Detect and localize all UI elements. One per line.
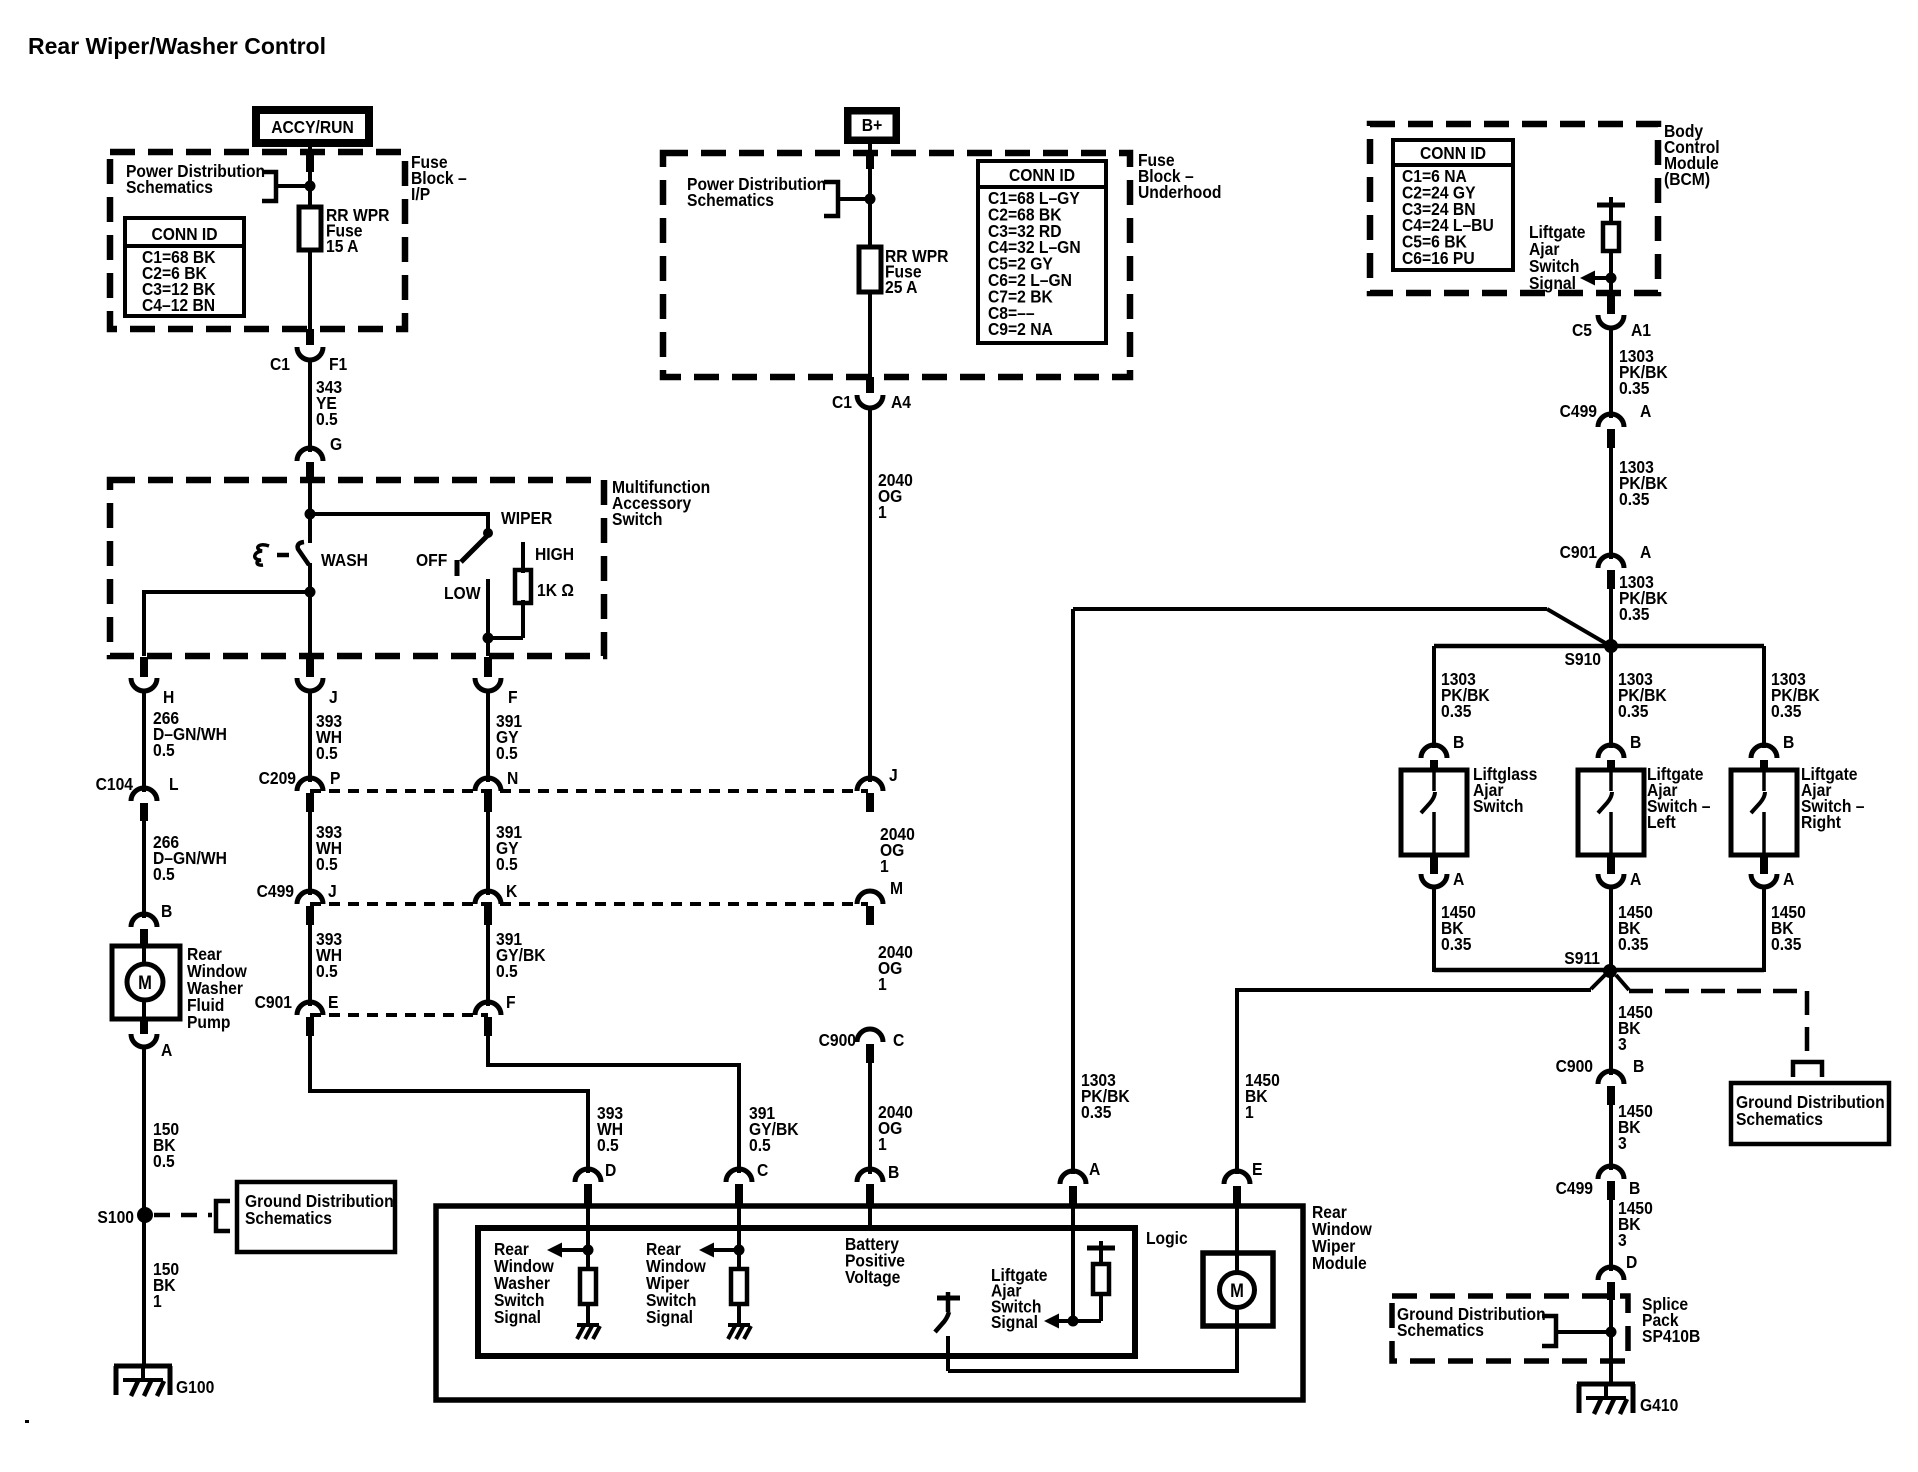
svg-text:B: B bbox=[1783, 732, 1794, 752]
svg-text:0.5: 0.5 bbox=[749, 1135, 771, 1155]
svg-text:0.35: 0.35 bbox=[1441, 934, 1471, 954]
multifunction accessory switch dashed box bbox=[110, 480, 604, 656]
connector H bbox=[131, 657, 174, 707]
svg-text:Module: Module bbox=[1312, 1253, 1367, 1273]
svg-text:0.5: 0.5 bbox=[316, 743, 338, 763]
svg-text:G100: G100 bbox=[176, 1377, 214, 1397]
svg-text:3: 3 bbox=[1618, 1230, 1627, 1250]
switch blade WASH bbox=[298, 542, 309, 565]
svg-text:LOW: LOW bbox=[444, 583, 481, 603]
connector C900/B (right) bbox=[1556, 1056, 1645, 1105]
svg-text:A: A bbox=[1089, 1159, 1100, 1179]
svg-text:C1: C1 bbox=[270, 354, 290, 374]
connector module pin B bbox=[857, 1169, 883, 1207]
svg-text:Rear Wiper/Washer Control: Rear Wiper/Washer Control bbox=[28, 33, 326, 59]
svg-text:C499: C499 bbox=[1560, 401, 1597, 421]
svg-text:0.5: 0.5 bbox=[496, 961, 518, 981]
wire LOW contact bbox=[486, 579, 490, 640]
svg-text:0.35: 0.35 bbox=[1619, 489, 1649, 509]
wire E jog to module pin D bbox=[310, 1033, 588, 1173]
connector module pin C bbox=[726, 1169, 752, 1207]
svg-text:C499: C499 bbox=[1556, 1178, 1593, 1198]
internal pull-up (BCM liftgate ajar input) bbox=[1597, 197, 1625, 293]
wire 150 BK 1 bbox=[142, 1215, 146, 1367]
svg-text:B+: B+ bbox=[862, 115, 883, 135]
connector A (liftgate left) bbox=[1598, 855, 1641, 889]
svg-text:0.35: 0.35 bbox=[1618, 701, 1648, 721]
fuse RR WPR 15 A bbox=[299, 207, 321, 250]
connector C901/E bbox=[255, 992, 339, 1036]
connector J (switch output) bbox=[297, 657, 338, 707]
svg-text:A: A bbox=[1783, 869, 1794, 889]
wire module A input (ajar signal) bbox=[1071, 1206, 1075, 1321]
wire 1303 PK/BK 0.35 (seg1) bbox=[1609, 327, 1613, 418]
node junction on B+ feed bbox=[865, 194, 876, 205]
svg-text:B: B bbox=[1629, 1178, 1640, 1198]
svg-text:1: 1 bbox=[153, 1291, 162, 1311]
svg-text:A1: A1 bbox=[1631, 320, 1651, 340]
svg-text:K: K bbox=[506, 881, 518, 901]
connector C5/A1 bbox=[1572, 293, 1651, 340]
wire module C input bbox=[737, 1206, 741, 1269]
svg-text:WIPER: WIPER bbox=[501, 508, 552, 528]
ground (washer input) bbox=[577, 1323, 599, 1327]
svg-text:Right: Right bbox=[1801, 812, 1841, 832]
svg-text:Switch: Switch bbox=[612, 509, 662, 529]
svg-text:L: L bbox=[169, 774, 179, 794]
svg-text:D: D bbox=[605, 1160, 616, 1180]
splice S911 bbox=[1603, 964, 1617, 978]
bracket to ground distribution (splice) bbox=[1542, 1316, 1556, 1346]
connector A (pump) bbox=[131, 1019, 172, 1060]
wire 393 WH 0.5 (seg2) bbox=[308, 808, 312, 895]
svg-text:J: J bbox=[328, 881, 337, 901]
connector F (switch output) bbox=[475, 657, 518, 707]
connector C499/M (B+) bbox=[857, 878, 903, 925]
wire feed inside switch bbox=[308, 480, 312, 543]
svg-text:0.5: 0.5 bbox=[496, 854, 518, 874]
connector C901/A (right) bbox=[1560, 542, 1652, 589]
svg-text:1: 1 bbox=[880, 856, 889, 876]
svg-text:1K Ω: 1K Ω bbox=[537, 580, 574, 600]
svg-text:0.35: 0.35 bbox=[1618, 934, 1648, 954]
arrow liftgate ajar switch signal (module) bbox=[1058, 1319, 1073, 1323]
connector C900/C (B+) bbox=[819, 1029, 905, 1063]
arrow rear window wiper switch signal bbox=[712, 1248, 739, 1252]
dashed wire S911 to ground distribution bbox=[1616, 975, 1629, 990]
connector C499/J bbox=[257, 881, 337, 925]
connector D (splice pack) bbox=[1598, 1267, 1624, 1300]
svg-text:Signal: Signal bbox=[991, 1312, 1038, 1332]
svg-text:CONN ID: CONN ID bbox=[151, 224, 217, 244]
node wash output junction bbox=[305, 587, 316, 598]
spring symbol (wash momentary) bbox=[255, 545, 269, 565]
wire HIGH contact bbox=[521, 542, 525, 573]
wire to washer pump branch bbox=[144, 592, 310, 656]
svg-text:25 A: 25 A bbox=[885, 277, 917, 297]
wire branch liftglass bbox=[1432, 646, 1436, 748]
wire 1450 BK 3 (seg3) bbox=[1609, 1196, 1613, 1271]
svg-text:J: J bbox=[889, 765, 898, 785]
dashed link spring to blade bbox=[277, 553, 289, 558]
arrow liftgate ajar switch signal (BCM) bbox=[1594, 276, 1611, 280]
svg-text:Switch: Switch bbox=[1473, 796, 1523, 816]
svg-text:C104: C104 bbox=[96, 774, 134, 794]
svg-text:Left: Left bbox=[1647, 812, 1676, 832]
wire junction to resistor bbox=[488, 636, 523, 640]
connector B (liftglass) bbox=[1421, 732, 1464, 771]
svg-text:0.5: 0.5 bbox=[153, 864, 175, 884]
wire branch liftgate left bbox=[1609, 646, 1613, 748]
wire module B input (battery) bbox=[868, 1206, 872, 1230]
connector C499/B (right) bbox=[1556, 1166, 1641, 1200]
svg-text:0.5: 0.5 bbox=[316, 961, 338, 981]
svg-text:B: B bbox=[1633, 1056, 1644, 1076]
node splice junction bbox=[1606, 1327, 1617, 1338]
svg-text:WASH: WASH bbox=[321, 550, 368, 570]
connector C499/K bbox=[475, 881, 518, 925]
svg-text:0.5: 0.5 bbox=[496, 743, 518, 763]
bracket to ground distribution (S100) bbox=[216, 1201, 230, 1231]
wire 1450 BK 0.35 (liftgate right) bbox=[1762, 886, 1766, 972]
wire wash lower contact bbox=[308, 563, 312, 656]
connector C209/J (B+) bbox=[857, 765, 898, 812]
wire ACCY/RUN to fuse bbox=[308, 145, 312, 209]
svg-text:C900: C900 bbox=[1556, 1056, 1593, 1076]
connector A (liftgate right) bbox=[1751, 855, 1794, 889]
svg-text:C209: C209 bbox=[259, 768, 296, 788]
resistor 1K (high speed) bbox=[515, 570, 531, 603]
svg-text:C: C bbox=[893, 1030, 904, 1050]
connector C499/A (right) bbox=[1560, 401, 1652, 448]
svg-text:Logic: Logic bbox=[1146, 1228, 1188, 1248]
svg-text:Voltage: Voltage bbox=[845, 1267, 900, 1287]
ground G410 bbox=[1577, 1384, 1678, 1415]
node low/high junction bbox=[483, 633, 494, 644]
svg-text:0.5: 0.5 bbox=[316, 409, 338, 429]
svg-text:S911: S911 bbox=[1564, 948, 1600, 968]
wire bracket stem (splice) bbox=[1556, 1330, 1606, 1334]
svg-text:ACCY/RUN: ACCY/RUN bbox=[271, 117, 354, 137]
svg-text:0.35: 0.35 bbox=[1619, 604, 1649, 624]
arrow rear window washer switch signal bbox=[560, 1248, 588, 1252]
wire 343 YE 0.5 bbox=[308, 359, 312, 452]
node liftgate ajar signal junction (module) bbox=[1068, 1316, 1079, 1327]
svg-text:C4–12 BN: C4–12 BN bbox=[142, 295, 215, 315]
body control module dashed box bbox=[1370, 124, 1658, 293]
svg-text:A: A bbox=[1640, 401, 1651, 421]
svg-text:A: A bbox=[1640, 542, 1651, 562]
ground (wiper input) bbox=[728, 1323, 750, 1327]
connector C1/A4 bbox=[832, 377, 912, 412]
bracket to power distribution (I/P) bbox=[262, 172, 276, 201]
svg-text:0.5: 0.5 bbox=[597, 1135, 619, 1155]
wire 391 GY 0.5 (seg2) bbox=[486, 808, 490, 895]
wire low branch to box edge bbox=[486, 638, 490, 656]
power feed box ACCY/RUN bbox=[252, 106, 373, 147]
svg-text:OFF: OFF bbox=[416, 550, 447, 570]
svg-text:0.35: 0.35 bbox=[1619, 378, 1649, 398]
svg-text:(BCM): (BCM) bbox=[1664, 169, 1710, 189]
wire 266 D-GN/WH 0.5 (lower) bbox=[142, 818, 146, 918]
connector module pin A bbox=[1060, 1171, 1086, 1207]
connector B (pump) bbox=[131, 901, 172, 948]
svg-text:C901: C901 bbox=[1560, 542, 1597, 562]
switch liftgate right ajar bbox=[1731, 770, 1797, 855]
wire branch liftgate right bbox=[1762, 646, 1766, 748]
switch liftglass ajar bbox=[1401, 770, 1467, 855]
svg-text:SP410B: SP410B bbox=[1642, 1326, 1700, 1346]
connector table CONN ID (BCM) bbox=[1393, 140, 1513, 270]
svg-text:Signal: Signal bbox=[646, 1307, 693, 1327]
svg-text:Schematics: Schematics bbox=[1397, 1320, 1484, 1340]
svg-text:C1: C1 bbox=[832, 392, 852, 412]
wire 1450 BK 3 (seg2) bbox=[1609, 1101, 1613, 1170]
svg-text:B: B bbox=[888, 1162, 899, 1182]
svg-text:G: G bbox=[330, 434, 342, 454]
svg-text:N: N bbox=[507, 768, 518, 788]
svg-text:0.5: 0.5 bbox=[153, 740, 175, 760]
svg-text:0.35: 0.35 bbox=[1771, 701, 1801, 721]
svg-text:S910: S910 bbox=[1564, 649, 1601, 669]
svg-text:F: F bbox=[506, 992, 516, 1012]
svg-text:B: B bbox=[161, 901, 172, 921]
connector C209/P bbox=[259, 768, 341, 812]
logic box bbox=[478, 1228, 1135, 1356]
svg-text:CONN ID: CONN ID bbox=[1420, 143, 1486, 163]
svg-text:B: B bbox=[1630, 732, 1641, 752]
wire module A up bbox=[1071, 609, 1075, 1174]
svg-text:0.5: 0.5 bbox=[316, 854, 338, 874]
svg-text:E: E bbox=[1252, 1159, 1262, 1179]
connector G into multifunction switch bbox=[297, 434, 342, 481]
splice S910 bbox=[1604, 639, 1618, 653]
svg-text:1: 1 bbox=[878, 1134, 887, 1154]
wire ajar switch bus (bottom) bbox=[1434, 968, 1764, 973]
wire S911 to module E (motor return) bbox=[1591, 975, 1605, 989]
node BCM signal junction bbox=[1606, 273, 1617, 284]
resistor wiper input pull-down bbox=[731, 1269, 747, 1304]
internal switch (wiper park) bbox=[935, 1292, 960, 1371]
svg-text:F: F bbox=[508, 687, 518, 707]
connector table CONN ID (underhood) bbox=[978, 161, 1106, 343]
bracket to power distribution (underhood) bbox=[824, 182, 838, 216]
svg-text:I/P: I/P bbox=[411, 184, 430, 204]
wire 1303 PK/BK 0.35 (seg3) bbox=[1609, 585, 1613, 646]
svg-text:1: 1 bbox=[878, 502, 887, 522]
svg-text:M: M bbox=[138, 972, 152, 993]
svg-text:G410: G410 bbox=[1640, 1395, 1678, 1415]
speck (scan artifact) bbox=[25, 1420, 29, 1423]
connector A (liftglass) bbox=[1421, 855, 1464, 889]
wire bracket stem (underhood) bbox=[838, 197, 866, 201]
svg-text:C6=16 PU: C6=16 PU bbox=[1402, 248, 1475, 268]
wire to wiper pivot bbox=[310, 514, 488, 532]
wire splice to ground bbox=[1609, 1297, 1613, 1386]
svg-text:A: A bbox=[1630, 869, 1641, 889]
svg-text:Underhood: Underhood bbox=[1138, 182, 1221, 202]
motor: rear wiper motor bbox=[1203, 1206, 1273, 1326]
connector C209/N bbox=[475, 768, 518, 812]
ground G100 bbox=[114, 1366, 214, 1397]
svg-text:B: B bbox=[1453, 732, 1464, 752]
svg-text:J: J bbox=[329, 687, 338, 707]
power feed box B+ bbox=[844, 107, 900, 144]
wire fuse to block edge bbox=[868, 292, 872, 377]
svg-text:Signal: Signal bbox=[494, 1307, 541, 1327]
svg-text:15 A: 15 A bbox=[326, 236, 358, 256]
svg-text:Schematics: Schematics bbox=[126, 177, 213, 197]
svg-text:0.5: 0.5 bbox=[153, 1151, 175, 1171]
svg-text:F1: F1 bbox=[329, 354, 347, 374]
wire 1450 BK 0.35 (liftgate left) bbox=[1609, 886, 1613, 972]
svg-text:0.35: 0.35 bbox=[1771, 934, 1801, 954]
wire park switch to motor bbox=[948, 1326, 1237, 1371]
svg-text:H: H bbox=[163, 687, 174, 707]
connector module pin E bbox=[1224, 1171, 1250, 1207]
svg-text:C5: C5 bbox=[1572, 320, 1592, 340]
svg-text:C499: C499 bbox=[257, 881, 294, 901]
wire 150 BK 0.5 bbox=[142, 1046, 146, 1215]
svg-text:A: A bbox=[161, 1040, 172, 1060]
switch liftgate left ajar bbox=[1578, 770, 1644, 855]
wire module D input bbox=[586, 1206, 590, 1269]
svg-text:E: E bbox=[328, 992, 338, 1012]
motor: rear window washer fluid pump bbox=[112, 946, 180, 1019]
wire F jog to module pin C bbox=[488, 1033, 739, 1173]
svg-text:Schematics: Schematics bbox=[245, 1208, 332, 1228]
bracket to ground distribution (right) bbox=[1793, 1062, 1822, 1077]
note box Ground Distribution Schematics (S100) bbox=[237, 1182, 395, 1252]
svg-text:C9=2 NA: C9=2 NA bbox=[988, 319, 1053, 339]
svg-text:0.35: 0.35 bbox=[1441, 701, 1471, 721]
wire 1303 PK/BK 0.35 (seg2) bbox=[1609, 444, 1613, 559]
svg-text:1: 1 bbox=[1245, 1102, 1254, 1122]
fuse RR WPR 25 A bbox=[859, 247, 881, 292]
node wiper pivot bbox=[483, 528, 493, 538]
svg-text:HIGH: HIGH bbox=[535, 544, 574, 564]
connector B (liftgate left) bbox=[1598, 732, 1641, 771]
svg-text:P: P bbox=[330, 768, 340, 788]
svg-text:M: M bbox=[1230, 1280, 1244, 1301]
wire 1450 BK 0.35 (liftglass) bbox=[1432, 886, 1436, 972]
wire resistor to ground (washer) bbox=[586, 1304, 590, 1326]
connector module pin D bbox=[575, 1169, 601, 1207]
internal pull-up (module ajar input) bbox=[1073, 1241, 1115, 1321]
svg-text:CONN ID: CONN ID bbox=[1009, 165, 1075, 185]
svg-text:A: A bbox=[1453, 869, 1464, 889]
svg-text:A4: A4 bbox=[891, 392, 912, 412]
dashed connector row C209 bbox=[310, 789, 868, 793]
resistor washer input pull-down bbox=[580, 1269, 596, 1304]
wire bracket stem (I/P) bbox=[276, 184, 308, 188]
connector B (liftgate right) bbox=[1751, 732, 1794, 771]
node wash/wiper feed junction bbox=[305, 509, 316, 520]
svg-text:Signal: Signal bbox=[1529, 273, 1576, 293]
wire 2040 OG to module bbox=[868, 1060, 872, 1174]
svg-text:1: 1 bbox=[878, 974, 887, 994]
dashed connector row C901 bbox=[310, 1013, 488, 1017]
wire 1450 BK 3 (seg1) bbox=[1609, 971, 1613, 1075]
svg-text:Schematics: Schematics bbox=[687, 190, 774, 210]
splice S100 bbox=[137, 1207, 153, 1223]
wire fuse to block edge bbox=[308, 250, 312, 329]
note box Ground Distribution Schematics (right) bbox=[1731, 1083, 1889, 1144]
connector table CONN ID (I/P) bbox=[125, 218, 244, 316]
wire ajar switch bus (top) bbox=[1434, 644, 1764, 649]
node wiper signal junction bbox=[734, 1245, 745, 1256]
svg-text:C: C bbox=[757, 1160, 768, 1180]
svg-text:C901: C901 bbox=[255, 992, 292, 1012]
svg-text:Pump: Pump bbox=[187, 1012, 230, 1032]
splice pack SP410B dashed box bbox=[1392, 1296, 1628, 1361]
connector C1/F1 bbox=[270, 329, 347, 374]
wire 393 WH 0.5 (seg3) bbox=[308, 921, 312, 1006]
switch blade WIPER (at OFF) bbox=[461, 534, 489, 562]
svg-text:C900: C900 bbox=[819, 1030, 856, 1050]
dashed wire S100 to ground distribution bbox=[154, 1213, 212, 1218]
connector C901/F bbox=[475, 992, 516, 1036]
wire 266 D-GN/WH 0.5 (upper) bbox=[142, 690, 146, 792]
rear window wiper module box bbox=[436, 1206, 1303, 1400]
wire 391 GY/BK 0.5 (seg3) bbox=[486, 921, 490, 1006]
wire resistor to ground (wiper) bbox=[737, 1304, 741, 1326]
wire 2040 OG 1 (segment 1) bbox=[868, 407, 872, 782]
connector C104/L bbox=[96, 774, 179, 821]
fuse block Underhood dashed box bbox=[663, 153, 1130, 377]
dashed connector row C499 bbox=[310, 902, 868, 906]
wire 393 WH 0.5 (seg1) bbox=[308, 690, 312, 782]
svg-text:3: 3 bbox=[1618, 1034, 1627, 1054]
node junction on ACCY feed bbox=[305, 181, 316, 192]
wire 391 GY 0.5 (seg1) bbox=[486, 690, 490, 782]
svg-text:Schematics: Schematics bbox=[1736, 1109, 1823, 1129]
fuse block I/P dashed box bbox=[110, 152, 405, 329]
svg-text:3: 3 bbox=[1618, 1133, 1627, 1153]
svg-text:D: D bbox=[1626, 1252, 1637, 1272]
wire B+ to fuse bbox=[868, 142, 872, 249]
node washer signal junction bbox=[583, 1245, 594, 1256]
svg-text:M: M bbox=[890, 878, 903, 898]
svg-text:0.35: 0.35 bbox=[1081, 1102, 1111, 1122]
wire liftgate ajar signal from module A bbox=[1073, 607, 1547, 611]
svg-text:S100: S100 bbox=[97, 1207, 134, 1227]
